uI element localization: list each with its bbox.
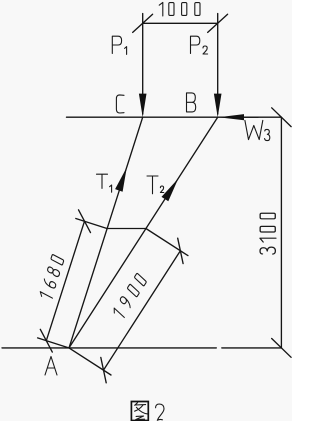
- dimension 1900: extension line at A: [69, 348, 111, 375]
- label C: [116, 95, 124, 113]
- dimension 1680: extension line at top: [76, 219, 107, 229]
- label W3: [245, 120, 270, 140]
- dimension 3100: top tick: [272, 108, 291, 127]
- caption character tu (figure): [131, 402, 148, 421]
- force P2 shaft + extension line: [217, 14, 219, 115]
- label P2: [191, 36, 208, 54]
- dimension 1900: bottom tick: [101, 357, 106, 382]
- dimension 1000: text: [159, 2, 200, 16]
- tension T2 arrowhead on tie: [162, 179, 179, 202]
- dimension 1000: dim line: [143, 22, 218, 24]
- label P1: [112, 36, 126, 54]
- tension T1 arrowhead on tie: [115, 167, 127, 192]
- dimension 1680: top tick: [79, 210, 91, 233]
- dimension 1000: right tick: [208, 14, 228, 32]
- caption numeral 2: [156, 404, 164, 420]
- dimension 1680: dim line: [46, 221, 84, 341]
- dimension 1680: text rotated: [39, 254, 64, 301]
- dimension 1680: extension line at A: [38, 338, 68, 348]
- label T2: [147, 176, 164, 194]
- dimension 1900: extension line at top: [146, 229, 188, 256]
- label A: [45, 357, 57, 376]
- ground line (bottom horizontal, left segment): [2, 347, 216, 349]
- dimension 1900: dim line: [104, 251, 181, 370]
- ground line (bottom horizontal, right segment): [222, 347, 282, 349]
- dimension 3100: dim line (right vertical): [280, 117, 282, 348]
- label B: [187, 93, 196, 112]
- force W3 arrowhead (points left at B): [219, 114, 245, 120]
- force W3 tail line: [244, 116, 258, 118]
- force P2 arrowhead: [214, 94, 222, 118]
- dimension 1000: left tick: [133, 14, 153, 32]
- force P1 shaft + extension line: [142, 14, 144, 115]
- dimension 1900: text rotated: [112, 273, 147, 321]
- dimension 1680: bottom tick: [40, 329, 52, 352]
- tie member T1 (wire A to C): [69, 117, 143, 348]
- force P1 arrowhead: [139, 94, 147, 118]
- dimension 1900: top tick: [178, 238, 183, 263]
- dimension 3100: bottom tick: [272, 339, 291, 358]
- tie member T2 (wire A to B): [69, 117, 218, 348]
- strut between ties at mid height: [107, 228, 146, 230]
- label T1: [97, 174, 112, 192]
- beam line CB (top horizontal member): [67, 116, 282, 118]
- dimension 3100: text rotated: [260, 213, 276, 254]
